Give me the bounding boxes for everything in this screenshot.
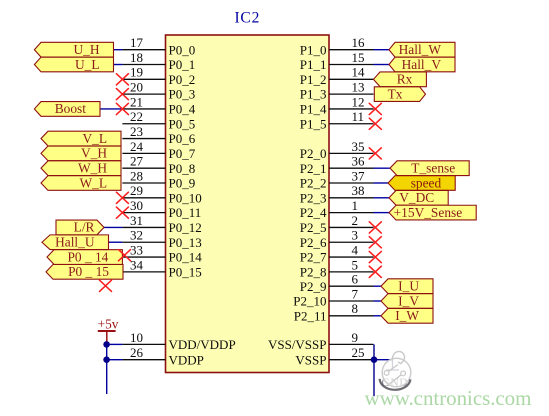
wire net I_W: [374, 315, 382, 317]
svg-text:P0_1: P0_1: [169, 57, 196, 72]
pin name P0_10: [169, 190, 202, 205]
net label flag Hall_W: [389, 42, 455, 57]
wire net U_L: [114, 64, 123, 66]
svg-text:I_U: I_U: [398, 279, 419, 294]
svg-text:21: 21: [130, 94, 143, 109]
svg-text:www.cntronics.com: www.cntronics.com: [365, 386, 532, 410]
svg-text:28: 28: [130, 168, 143, 183]
pin name VDDP: [169, 353, 204, 368]
svg-text:9: 9: [352, 330, 359, 345]
no-ERC X mark pin 30: [116, 207, 128, 218]
svg-text:20: 20: [130, 80, 143, 95]
svg-text:Boost: Boost: [55, 101, 87, 116]
svg-text:P2_1: P2_1: [300, 161, 327, 176]
pin 4 (P2_7) stub wire: [329, 256, 374, 258]
svg-text:P1_3: P1_3: [300, 87, 327, 102]
pin name P2_7: [300, 250, 327, 265]
pin name P1_4: [300, 102, 327, 117]
svg-text:31: 31: [130, 213, 143, 228]
no-ERC X mark pin 12: [369, 103, 381, 114]
svg-text:P0_6: P0_6: [169, 131, 196, 146]
no-ERC X mark pin 3: [369, 237, 381, 248]
wire net U_H: [114, 49, 123, 51]
wire VSS vertical: [373, 344, 375, 396]
svg-text:P0_9: P0_9: [169, 176, 196, 191]
pin number 15: [352, 50, 365, 65]
net label flag Rx: [374, 72, 427, 87]
pin name P1_5: [300, 116, 327, 131]
svg-text:P2_8: P2_8: [300, 264, 327, 279]
svg-text:38: 38: [352, 183, 365, 198]
svg-text:P1_1: P1_1: [300, 57, 327, 72]
net label flag W_H: [41, 160, 121, 175]
pin 5 (P2_8) stub wire: [329, 271, 374, 273]
pin name P2_0: [300, 146, 327, 161]
pin 32 (P0_13) stub wire: [122, 241, 165, 243]
pin name P0_8: [169, 161, 196, 176]
pin 36 (P2_1) stub wire: [329, 167, 374, 169]
pin number 17: [130, 35, 144, 50]
svg-text:P2_9: P2_9: [300, 279, 327, 294]
svg-text:P0_0: P0_0: [169, 42, 196, 57]
pin number 23: [130, 124, 143, 139]
svg-text:34: 34: [130, 257, 144, 272]
wire net Hall_V: [374, 64, 390, 66]
svg-text:15: 15: [352, 50, 365, 65]
svg-text:P2_11: P2_11: [294, 308, 327, 323]
svg-text:+15V_Sense: +15V_Sense: [394, 205, 463, 220]
svg-text:4: 4: [352, 242, 359, 257]
pin name P1_2: [300, 72, 327, 87]
svg-text:V_DC: V_DC: [399, 190, 434, 205]
pin 24 (P0_7) stub wire: [122, 152, 165, 154]
svg-text:29: 29: [130, 183, 143, 198]
svg-text:P0_5: P0_5: [169, 116, 196, 131]
watermark logo circle: [380, 351, 411, 389]
wire net +15V_Sense: [374, 212, 390, 214]
pin number 22: [130, 109, 143, 124]
svg-text:V_L: V_L: [82, 131, 107, 146]
svg-text:P2_3: P2_3: [300, 190, 327, 205]
pin 19 (P0_2) stub wire: [122, 78, 165, 80]
svg-text:U_H: U_H: [73, 42, 99, 57]
svg-text:32: 32: [130, 228, 143, 243]
net label flag V_L: [41, 131, 121, 146]
pin number 28: [130, 168, 143, 183]
pin number 37: [352, 168, 366, 183]
svg-text:33: 33: [130, 242, 143, 257]
no-ERC X mark pin 35: [369, 148, 381, 159]
net label flag V_H: [41, 146, 121, 161]
pin name P2_8: [300, 264, 327, 279]
pin name P2_10: [293, 294, 326, 309]
pin 25 (VSSP) stub wire: [329, 359, 374, 361]
net label flag V_DC: [389, 190, 448, 205]
pin 33 (P0_14) stub wire: [122, 256, 165, 258]
pin number 20: [130, 80, 143, 95]
net label flag P0_15: [46, 264, 123, 279]
svg-text:V_H: V_H: [81, 146, 107, 161]
svg-text:VDDP: VDDP: [169, 353, 204, 368]
pin name P0_1: [169, 57, 196, 72]
wire +5v vertical: [106, 343, 108, 394]
wire net T_sense: [374, 167, 391, 169]
svg-text:6: 6: [352, 272, 359, 287]
wire net Boost: [100, 108, 122, 110]
pin name P0_6: [169, 131, 196, 146]
svg-text:P0_11: P0_11: [169, 205, 202, 220]
pin 29 (P0_10) stub wire: [122, 197, 165, 199]
pin name P2_2: [300, 176, 327, 191]
svg-text:35: 35: [352, 139, 365, 154]
pin number 2: [352, 213, 359, 228]
pin 8 (P2_11) stub wire: [329, 315, 374, 317]
svg-text:30: 30: [130, 198, 143, 213]
svg-text:18: 18: [130, 50, 143, 65]
net label flag Boost: [34, 101, 100, 116]
pin name P0_15: [169, 264, 202, 279]
pin name P2_3: [300, 190, 327, 205]
pin name P0_4: [169, 102, 196, 117]
pin number 35: [352, 139, 365, 154]
pin name P0_14: [169, 250, 203, 265]
svg-text:17: 17: [130, 35, 144, 50]
svg-text:P0_13: P0_13: [169, 235, 202, 250]
pin number 9: [352, 330, 359, 345]
svg-text:P1_5: P1_5: [300, 116, 327, 131]
pin name P0_11: [169, 205, 202, 220]
net label flag speed: [388, 175, 455, 190]
svg-text:P1_2: P1_2: [300, 72, 327, 87]
svg-text:P2_6: P2_6: [300, 235, 327, 250]
pin 27 (P0_8) stub wire: [122, 167, 165, 169]
pin name P2_5: [300, 220, 327, 235]
wire net I_V: [374, 300, 382, 302]
svg-text:P0_2: P0_2: [169, 72, 196, 87]
pin number 13: [352, 80, 365, 95]
wire net Hall_U: [109, 241, 123, 243]
pin number 36: [352, 154, 366, 169]
pin number 32: [130, 228, 143, 243]
wire +5v to pin 26: [107, 359, 123, 361]
pin name P0_13: [169, 235, 202, 250]
no-ERC X mark pin 33: [119, 250, 131, 261]
pin number 26: [130, 345, 144, 360]
svg-text:37: 37: [352, 168, 366, 183]
no-ERC X mark pin 5: [369, 266, 381, 277]
pin 15 (P1_1) stub wire: [329, 64, 374, 66]
pin number 1: [352, 198, 359, 213]
no-ERC X mark pin 21: [116, 103, 128, 114]
pin 2 (P2_5) stub wire: [329, 226, 374, 228]
svg-text:27: 27: [130, 154, 144, 169]
pin name VSS/VSSP: [268, 337, 327, 352]
svg-text:8: 8: [352, 301, 359, 316]
net label flag P0_14: [47, 249, 122, 264]
svg-text:P2_7: P2_7: [300, 250, 327, 265]
pin number 33: [130, 242, 143, 257]
pin name P2_4: [300, 205, 327, 220]
pin number 38: [352, 183, 365, 198]
pin 17 (P0_0) stub wire: [122, 49, 165, 51]
pin name P2_11: [294, 308, 327, 323]
net label flag T_sense: [390, 160, 469, 175]
no-ERC X mark pin 4: [369, 251, 381, 262]
pin name P0_5: [169, 116, 196, 131]
svg-text:P2_5: P2_5: [300, 220, 327, 235]
pin 16 (P1_0) stub wire: [329, 49, 374, 51]
pin 38 (P2_3) stub wire: [329, 197, 374, 199]
svg-text:10: 10: [130, 330, 143, 345]
pin name P0_12: [169, 220, 202, 235]
pin name P0_0: [169, 42, 196, 57]
wire net L/R: [103, 226, 122, 228]
svg-text:26: 26: [130, 345, 144, 360]
pin 14 (P1_2) stub wire: [329, 78, 374, 80]
pin 18 (P0_1) stub wire: [122, 64, 165, 66]
pin name P1_0: [300, 42, 327, 57]
no-ERC X mark pin 29: [116, 192, 128, 203]
pin name P1_3: [300, 87, 327, 102]
svg-text:12: 12: [352, 94, 365, 109]
pin number 21: [130, 94, 143, 109]
svg-text:36: 36: [352, 154, 366, 169]
pin name P0_9: [169, 176, 196, 191]
wire VSS to GND: [374, 359, 393, 361]
svg-text:P0_14: P0_14: [169, 250, 203, 265]
svg-text:I_V: I_V: [398, 293, 419, 308]
svg-text:11: 11: [352, 109, 365, 124]
junction dot pin 26: [103, 356, 110, 363]
pin number 8: [352, 301, 359, 316]
pin 11 (P1_5) stub wire: [329, 123, 374, 125]
pin name P0_2: [169, 72, 196, 87]
net label flag I_U: [381, 279, 433, 294]
no-ERC X mark pin 11: [369, 118, 381, 129]
pin name P0_7: [169, 146, 196, 161]
pin 1 (P2_4) stub wire: [329, 212, 374, 214]
pin 20 (P0_3) stub wire: [122, 93, 165, 95]
svg-text:Hall_U: Hall_U: [55, 235, 95, 250]
pin number 14: [352, 65, 366, 80]
pin 26 (VDDP) stub wire: [122, 359, 165, 361]
svg-text:Rx: Rx: [397, 72, 413, 87]
no-ERC X mark pin 20: [116, 89, 128, 100]
pin 31 (P0_12) stub wire: [122, 226, 165, 228]
pin number 4: [352, 242, 359, 257]
svg-text:W_L: W_L: [79, 175, 107, 190]
svg-text:P1_0: P1_0: [300, 42, 327, 57]
pin number 31: [130, 213, 143, 228]
net label flag Hall_U: [42, 235, 109, 250]
svg-text:P0 _ 15: P0 _ 15: [68, 264, 109, 279]
svg-text:P0_4: P0_4: [169, 102, 196, 117]
pin name P1_1: [300, 57, 327, 72]
svg-text:Hall_V: Hall_V: [402, 57, 442, 72]
pin 34 (P0_15) stub wire: [122, 271, 165, 273]
junction dot VSS: [371, 356, 378, 363]
net label flag L/R: [56, 220, 104, 235]
pin number 18: [130, 50, 143, 65]
svg-text:U_L: U_L: [75, 57, 100, 72]
pin number 34: [130, 257, 144, 272]
no-ERC X mark below P0_15: [100, 280, 112, 291]
pin 35 (P2_0) stub wire: [329, 152, 374, 154]
pin number 3: [352, 228, 359, 243]
net label flag Hall_V: [389, 57, 455, 72]
svg-text:1: 1: [352, 198, 359, 213]
pin number 6: [352, 272, 359, 287]
pin 3 (P2_6) stub wire: [329, 241, 374, 243]
pin 7 (P2_10) stub wire: [329, 300, 374, 302]
pin name P2_9: [300, 279, 327, 294]
svg-text:P2_4: P2_4: [300, 205, 327, 220]
net label flag W_L: [41, 175, 121, 190]
pin 10 (VDD/VDDP) stub wire: [122, 343, 165, 345]
pin 23 (P0_6) stub wire: [122, 138, 165, 140]
pin number 10: [130, 330, 143, 345]
svg-text:W_H: W_H: [78, 160, 107, 175]
svg-text:P2_2: P2_2: [300, 176, 327, 191]
pin number 16: [352, 35, 366, 50]
pin number 30: [130, 198, 143, 213]
svg-text:P0_10: P0_10: [169, 190, 202, 205]
pin 12 (P1_4) stub wire: [329, 108, 374, 110]
wire net I_U: [374, 285, 382, 287]
svg-text:VSSP: VSSP: [295, 353, 326, 368]
designator IC2: [234, 10, 260, 27]
svg-text:7: 7: [352, 286, 359, 301]
pin 28 (P0_9) stub wire: [122, 182, 165, 184]
pin name P0_3: [169, 87, 196, 102]
svg-text:T_sense: T_sense: [411, 160, 455, 175]
svg-text:19: 19: [130, 65, 143, 80]
junction dot pin 10: [103, 341, 110, 348]
svg-text:22: 22: [130, 109, 143, 124]
svg-text:13: 13: [352, 80, 365, 95]
wire net V_DC: [374, 197, 390, 199]
no-ERC X mark pin 19: [116, 74, 128, 85]
net label flag U_L: [34, 57, 113, 72]
wire net Hall_W: [374, 49, 390, 51]
svg-text:+5v: +5v: [98, 317, 119, 332]
net label flag Tx: [374, 86, 425, 101]
wire net speed: [374, 182, 389, 184]
svg-text:16: 16: [352, 35, 366, 50]
svg-text:L/R: L/R: [74, 220, 95, 235]
pin number 24: [130, 139, 144, 154]
pin 30 (P0_11) stub wire: [122, 212, 165, 214]
pin 6 (P2_9) stub wire: [329, 285, 374, 287]
svg-text:24: 24: [130, 139, 144, 154]
ground GND symbol: [382, 360, 409, 389]
pin number 5: [352, 257, 359, 272]
pin number 29: [130, 183, 143, 198]
power symbol +5v label: [98, 317, 119, 332]
pin 9 (VSS/VSSP) stub wire: [329, 343, 374, 345]
pin number 7: [352, 286, 359, 301]
svg-text:P0_8: P0_8: [169, 161, 196, 176]
svg-text:Hall_W: Hall_W: [399, 42, 442, 57]
svg-text:P0_3: P0_3: [169, 87, 196, 102]
pin number 11: [352, 109, 365, 124]
pin name P2_1: [300, 161, 327, 176]
pin number 12: [352, 94, 365, 109]
net label flag I_V: [381, 293, 433, 308]
pin number 19: [130, 65, 143, 80]
svg-text:VSS/VSSP: VSS/VSSP: [268, 337, 327, 352]
wire +5v to pin 10: [107, 343, 123, 345]
power symbol +5v bar: [98, 331, 116, 343]
net label flag U_H: [34, 42, 113, 57]
pin 13 (P1_3) stub wire: [329, 93, 374, 95]
net label flag +15V_Sense: [389, 205, 476, 220]
pin name VDD/VDDP: [169, 337, 236, 352]
svg-text:25: 25: [352, 345, 365, 360]
pin 21 (P0_4) stub wire: [122, 108, 165, 110]
pin 22 (P0_5) stub wire: [122, 123, 165, 125]
svg-text:P2_0: P2_0: [300, 146, 327, 161]
svg-text:P1_4: P1_4: [300, 102, 327, 117]
svg-text:23: 23: [130, 124, 143, 139]
svg-text:I_W: I_W: [395, 308, 419, 323]
watermark text www.cntronics.com: [365, 386, 532, 410]
svg-text:14: 14: [352, 65, 366, 80]
IC IC2 body (microcontroller): [166, 35, 330, 373]
svg-text:IC2: IC2: [234, 10, 260, 27]
no-ERC X mark pin 2: [369, 222, 381, 233]
svg-text:speed: speed: [411, 175, 442, 190]
pin name VSSP: [295, 353, 326, 368]
net label flag I_W: [381, 308, 433, 323]
svg-text:P0_7: P0_7: [169, 146, 196, 161]
pin number 27: [130, 154, 144, 169]
pin name P2_6: [300, 235, 327, 250]
svg-text:Tx: Tx: [388, 86, 403, 101]
svg-text:3: 3: [352, 228, 359, 243]
svg-text:5: 5: [352, 257, 359, 272]
svg-text:P2_10: P2_10: [293, 294, 326, 309]
svg-text:VDD/VDDP: VDD/VDDP: [169, 337, 236, 352]
svg-text:P0 _ 14: P0 _ 14: [67, 249, 108, 264]
svg-text:2: 2: [352, 213, 359, 228]
pin number 25: [352, 345, 365, 360]
svg-text:P0_12: P0_12: [169, 220, 202, 235]
pin 37 (P2_2) stub wire: [329, 182, 374, 184]
svg-text:P0_15: P0_15: [169, 264, 202, 279]
